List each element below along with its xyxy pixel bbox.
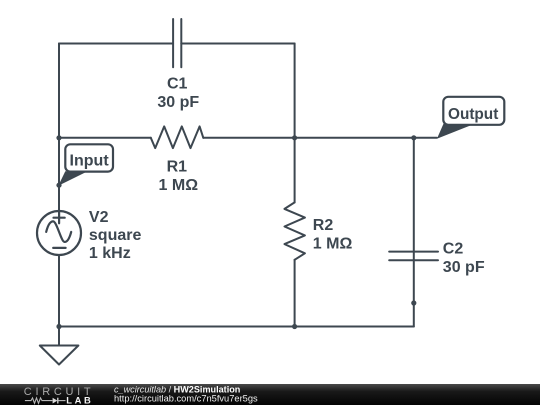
ground xyxy=(40,346,79,365)
footer title xyxy=(114,385,258,404)
node R1-R2 junction xyxy=(292,135,297,140)
node R2 bottom xyxy=(292,324,297,329)
svg-text:V2: V2 xyxy=(89,209,109,226)
svg-text:1 MΩ: 1 MΩ xyxy=(159,177,199,194)
flag Output tail xyxy=(437,123,471,139)
svg-text:square: square xyxy=(89,227,142,244)
svg-text:Output: Output xyxy=(448,106,499,123)
resistor R1 xyxy=(151,126,204,148)
capacitor C1 xyxy=(173,19,181,67)
svg-text:R2: R2 xyxy=(313,217,334,234)
svg-text:1 kHz: 1 kHz xyxy=(89,245,131,262)
footer bar xyxy=(0,384,540,405)
svg-text:Input: Input xyxy=(70,152,110,169)
wire ground stem xyxy=(58,327,60,346)
svg-text:C2: C2 xyxy=(443,240,464,257)
wire middle horizontal left of R1 xyxy=(59,137,151,139)
node bottom-left xyxy=(56,324,61,329)
flag Input tail xyxy=(58,171,87,186)
svg-text:30 pF: 30 pF xyxy=(443,259,485,276)
capacitor C2 xyxy=(389,252,438,261)
svg-text:R1: R1 xyxy=(167,158,188,175)
wire top horizontal left of C1 xyxy=(59,43,173,45)
CircuitLab logo xyxy=(24,386,95,405)
svg-text:LAB: LAB xyxy=(66,394,93,405)
svg-text:http://circuitlab.com/c7n5fvu7: http://circuitlab.com/c7n5fvu7er5gs xyxy=(114,394,258,404)
node input-flag xyxy=(56,183,61,188)
wire top-left vertical xyxy=(58,44,60,212)
resistor R2 xyxy=(285,202,305,259)
wire R2 top lead xyxy=(294,138,296,203)
wire C2 vertical xyxy=(413,138,415,327)
wire R2 bottom lead xyxy=(294,260,296,327)
node input-junction xyxy=(56,135,61,140)
wire bottom rail xyxy=(59,326,414,328)
svg-text:30 pF: 30 pF xyxy=(157,94,199,111)
wire V2 bottom to bottom rail xyxy=(58,255,60,327)
wire right vertical C1 to middle xyxy=(294,44,296,138)
node output junction xyxy=(411,135,416,140)
flag Output xyxy=(443,97,504,125)
wire middle horizontal right of R1 xyxy=(203,137,436,139)
flag Input xyxy=(65,144,113,171)
svg-text:1 MΩ: 1 MΩ xyxy=(313,236,353,253)
node C2 bottom xyxy=(411,300,416,305)
voltage source V2 xyxy=(37,211,81,255)
svg-text:C1: C1 xyxy=(167,75,188,92)
wire top horizontal right of C1 xyxy=(181,43,294,45)
